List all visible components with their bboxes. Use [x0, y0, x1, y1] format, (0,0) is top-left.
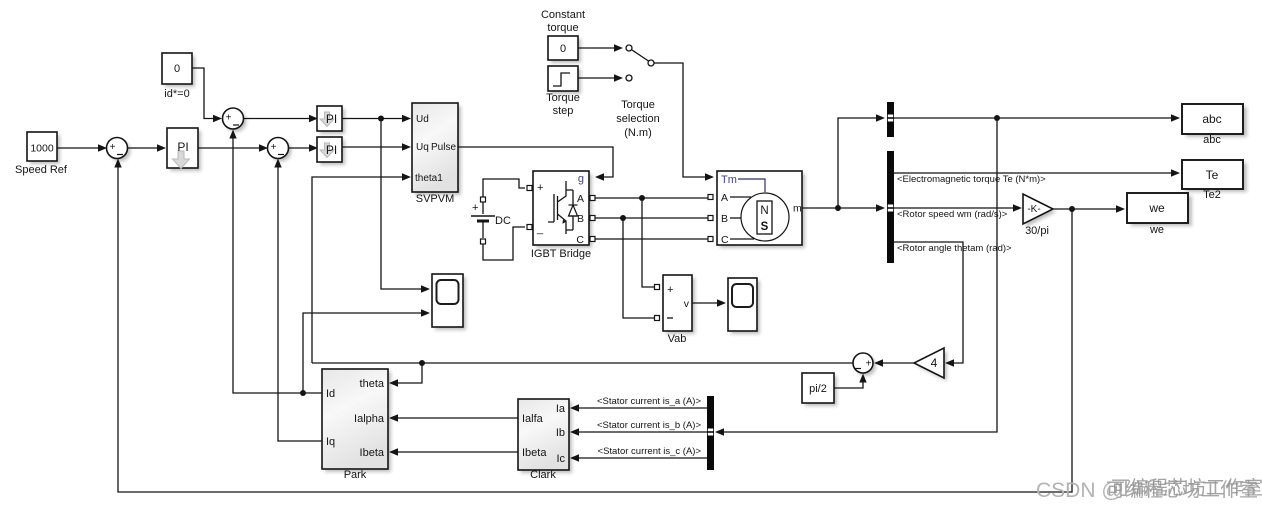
converter IGBT Bridge — [527, 171, 595, 260]
wire Clark Ibeta to Park Ibeta — [389, 448, 518, 455]
wire electromagnetic torque to outport Te — [894, 169, 1180, 185]
junction dot m branch — [835, 205, 841, 211]
svg-text:4: 4 — [931, 356, 938, 370]
svg-text:Ic: Ic — [556, 453, 565, 465]
wire DC plus to IGBT plus — [483, 179, 525, 197]
svg-text:PI: PI — [326, 112, 337, 126]
svg-text:Iq: Iq — [326, 436, 335, 448]
wire Iq feedback Park to iq sum — [274, 159, 322, 442]
svg-text:1000: 1000 — [30, 143, 54, 155]
svg-text:Torque: Torque — [621, 99, 655, 111]
svg-text:Ia: Ia — [556, 403, 566, 415]
wire phase A IGBT to motor — [595, 197, 710, 199]
block pi/2 constant — [802, 373, 837, 406]
wire theta branch to Park theta — [389, 363, 422, 387]
wire id sum to PI d — [244, 115, 319, 122]
sum junction speed error — [107, 138, 131, 162]
svg-text:Te: Te — [1206, 168, 1219, 182]
svg-text:30/pi: 30/pi — [1025, 225, 1049, 237]
wire stator current b to Clark Ib — [570, 420, 707, 436]
svg-text:m: m — [793, 203, 802, 215]
svg-text:Torque: Torque — [546, 92, 580, 104]
svg-text:Park: Park — [344, 469, 367, 481]
junction dot phase A tap — [639, 195, 645, 201]
wire DC minus to IGBT minus — [483, 227, 525, 260]
wire id*=0 to id sum — [192, 68, 222, 122]
motor PMSM block — [708, 171, 805, 248]
svg-text:theta1: theta1 — [415, 173, 443, 184]
wire theta feedback to SVPVM theta1 — [312, 173, 411, 363]
wire abc branch down to demux input — [715, 118, 997, 436]
wire scope tap Id up to scope input 2 — [303, 309, 430, 393]
svg-text:_: _ — [536, 223, 544, 235]
wire PI d to SVPVM Ud — [342, 115, 411, 122]
svg-text:<Electromagnetic torque Te (N*: <Electromagnetic torque Te (N*m)> — [897, 174, 1046, 185]
wire rotor speed to gain 30/pi — [894, 204, 1022, 220]
svg-text:C: C — [576, 234, 584, 246]
measurement Vab voltmeter — [663, 275, 695, 345]
outport we — [1127, 193, 1192, 236]
svg-text:SVPVM: SVPVM — [416, 193, 455, 205]
svg-text:g: g — [578, 173, 584, 185]
junction dot Id scope tap — [300, 390, 306, 396]
svg-text:theta: theta — [360, 378, 385, 390]
svg-text:Constant: Constant — [541, 9, 585, 21]
svg-text:<Stator current is_c (A)>: <Stator current is_c (A)> — [598, 446, 702, 457]
wire PI q to SVPVM Uq — [342, 143, 411, 150]
svg-text:Speed Ref: Speed Ref — [15, 164, 68, 176]
svg-text:<Stator current is_b (A)>: <Stator current is_b (A)> — [597, 420, 701, 431]
wire SVPVM Pulse to IGBT gate g — [458, 147, 613, 181]
svg-text:0: 0 — [174, 63, 180, 75]
svg-text:Uq: Uq — [416, 142, 429, 153]
outport abc — [1182, 104, 1247, 146]
wire phase A tap to Vab plus — [642, 198, 660, 290]
svg-text:可编程芯坊工作室: 可编程芯坊工作室 — [1111, 477, 1262, 499]
DC voltage source battery — [471, 197, 511, 244]
svg-text:IGBT Bridge: IGBT Bridge — [531, 248, 591, 260]
outport Te — [1182, 160, 1247, 201]
wire Speed Ref to speed sum — [57, 144, 107, 151]
svg-text:Ibeta: Ibeta — [522, 447, 547, 459]
svg-text:A: A — [577, 193, 584, 205]
svg-text:A: A — [721, 192, 728, 204]
svg-text:<Rotor speed wm (rad/s)>: <Rotor speed wm (rad/s)> — [897, 209, 1008, 220]
block id*=0 constant — [162, 53, 195, 100]
svg-text:Pulse: Pulse — [431, 142, 456, 153]
junction dot abc branch — [994, 115, 1000, 121]
scope Scope2 voltage — [728, 278, 760, 334]
svg-text:selection: selection — [616, 113, 659, 125]
svg-text:+: + — [537, 182, 543, 194]
wire scope tap Ud down to scope input 1 — [381, 119, 430, 293]
wire abc selector to outport abc — [894, 114, 1180, 121]
svg-text:Clark: Clark — [530, 469, 556, 481]
svg-text:Ialpha: Ialpha — [354, 413, 385, 425]
wire stator current c to Clark Ic — [570, 446, 707, 462]
svg-text:Tm: Tm — [721, 174, 737, 186]
svg-text:0: 0 — [560, 43, 566, 55]
scope Scope1 two inputs — [432, 274, 466, 330]
svg-text:DC: DC — [495, 215, 511, 227]
wire Id feedback Park to id sum — [229, 130, 322, 394]
junction dot we feedback — [1069, 206, 1075, 212]
svg-text:+: + — [667, 284, 673, 296]
subsystem SVPVM — [412, 103, 461, 205]
wire Vab to Scope2 — [692, 299, 726, 306]
svg-text:(N.m): (N.m) — [624, 127, 652, 139]
svg-text:Ibeta: Ibeta — [360, 447, 385, 459]
block Constant torque — [541, 9, 585, 63]
bus selector abc currents — [887, 102, 894, 137]
svg-text:abc: abc — [1203, 134, 1221, 146]
wire speed feedback bottom loop — [114, 159, 1072, 493]
svg-text:Te2: Te2 — [1203, 189, 1221, 201]
gain 30/pi — [1023, 194, 1056, 237]
svg-text:PI: PI — [177, 140, 188, 154]
svg-text:-K-: -K- — [1027, 204, 1040, 215]
svg-text:Ud: Ud — [416, 114, 429, 125]
svg-text:B: B — [721, 213, 728, 225]
sum junction theta offset — [853, 353, 876, 376]
wire speed sum to PI — [128, 144, 167, 151]
svg-text:id*=0: id*=0 — [164, 88, 189, 100]
controller PI q-axis — [317, 137, 345, 165]
wire phase B IGBT to motor — [595, 217, 710, 219]
watermark CSDN — [1036, 477, 1262, 502]
svg-text:we: we — [1149, 224, 1164, 236]
junction dot Ud scope tap — [378, 116, 384, 122]
svg-text:v: v — [684, 298, 690, 310]
svg-text:Ialfa: Ialfa — [522, 413, 544, 425]
wire PI to iq sum — [198, 144, 268, 151]
controller PI d-axis — [317, 106, 345, 134]
svg-text:+: + — [866, 359, 872, 370]
svg-text:<Stator current is_a (A)>: <Stator current is_a (A)> — [597, 396, 701, 407]
svg-text:+: + — [271, 142, 277, 153]
wire rotor angle to gain4 — [893, 242, 1012, 367]
svg-text:S: S — [761, 221, 769, 233]
manual switch torque selection — [616, 45, 660, 139]
wire gain to outport we — [1053, 205, 1125, 212]
svg-text:Id: Id — [326, 388, 335, 400]
wire Torque step to switch — [578, 74, 623, 81]
svg-text:+: + — [110, 142, 116, 153]
wire phase B tap to Vab minus — [623, 218, 660, 321]
wire iq sum to PI q — [289, 144, 319, 151]
svg-text:<Rotor angle thetam (rad)>: <Rotor angle thetam (rad)> — [897, 243, 1012, 254]
block Speed Ref constant 1000 — [15, 132, 68, 176]
junction dot phase B tap — [620, 215, 626, 221]
wire motor m to bus selectors — [802, 204, 885, 211]
subsystem Clark transform — [518, 399, 572, 481]
svg-text:B: B — [577, 213, 584, 225]
svg-text:Vab: Vab — [668, 333, 687, 345]
controller PI speed — [167, 128, 201, 171]
block Torque step — [546, 66, 581, 117]
sum junction id error — [223, 108, 247, 132]
svg-text:C: C — [721, 234, 729, 246]
subsystem Park transform — [322, 369, 391, 481]
svg-text:+: + — [472, 202, 478, 214]
wire gain4 to theta sum — [874, 359, 914, 366]
svg-text:torque: torque — [547, 22, 578, 34]
svg-text:+: + — [226, 113, 232, 124]
junction dot theta to Park — [419, 360, 425, 366]
gain 4 pole pairs (points left) — [914, 348, 947, 381]
wire Clark Ialfa to Park Ialpha — [389, 414, 518, 421]
svg-text:we: we — [1148, 201, 1165, 215]
svg-text:step: step — [553, 105, 574, 117]
svg-text:N: N — [760, 205, 768, 217]
wire theta sum output to left — [312, 362, 854, 364]
wire stator current a to Clark Ia — [570, 396, 707, 412]
svg-text:PI: PI — [326, 143, 337, 157]
svg-text:Ib: Ib — [556, 427, 565, 439]
wire pi/2 to theta sum — [834, 374, 867, 389]
demux stator currents bus bar — [707, 396, 714, 470]
wire m branch up to abc selector — [838, 114, 885, 208]
wire Constant torque to switch — [578, 44, 623, 51]
sum junction iq error — [268, 138, 292, 162]
svg-text:abc: abc — [1202, 112, 1221, 126]
wire phase C IGBT to motor — [595, 238, 710, 240]
svg-text:pi/2: pi/2 — [809, 383, 827, 395]
bus selector measurements — [887, 151, 894, 263]
wire torque selection to motor Tm — [660, 63, 714, 181]
